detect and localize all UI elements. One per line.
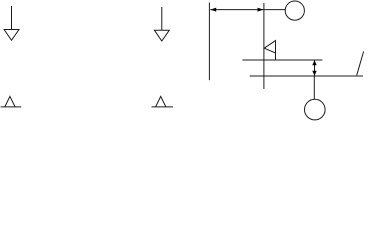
terminal circle top — [285, 1, 304, 20]
down-arrow symbol A2 stem — [161, 7, 163, 30]
down-arrow symbol A1 stem — [11, 6, 13, 30]
down-arrow symbol A1 open head — [4, 30, 19, 41]
marker B1 open triangle — [5, 96, 15, 107]
vertical reference line V1 — [208, 3, 210, 81]
horizontal line L1 — [242, 59, 322, 61]
terminal circle bottom — [305, 99, 326, 120]
wiper stub to line L1 — [275, 53, 277, 60]
dimension arrow shaft / wire to top circle — [210, 9, 285, 11]
dimension arrowhead left — [210, 8, 216, 12]
wire to bottom circle — [313, 76, 315, 99]
vertical reference line V2 — [263, 3, 265, 89]
down-arrow symbol A2 open head — [154, 30, 169, 41]
horizontal line L2 — [250, 75, 363, 77]
slash tick — [357, 52, 364, 76]
marker B1 baseline — [1, 106, 22, 108]
vertical dimension arrowhead up — [312, 60, 316, 65]
vertical dimension arrow shaft — [314, 60, 316, 75]
left-pointing wiper triangle — [264, 41, 275, 53]
marker B2 baseline — [152, 106, 174, 108]
marker B2 open triangle — [156, 96, 166, 107]
dimension arrowhead right — [258, 8, 264, 12]
vertical dimension arrowhead down — [312, 71, 316, 76]
